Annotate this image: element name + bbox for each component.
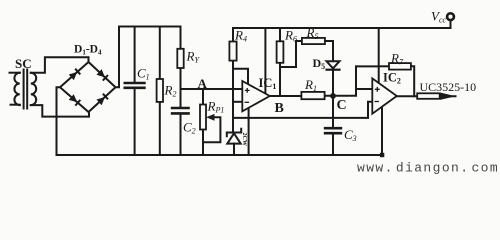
- diode bridge diamond D1-D4: [60, 62, 116, 112]
- resistor R7 box: [389, 63, 411, 70]
- svg-text:UC3525-10: UC3525-10: [420, 80, 477, 94]
- diode D5 cathode bar: [327, 69, 340, 71]
- wire bridge left corner to bottom rail: [57, 87, 61, 155]
- rail end junction blob: [380, 153, 384, 157]
- wire IC2 lower power to rail: [381, 108, 383, 156]
- wire to IC2 noninverting input: [356, 88, 372, 90]
- unlabeled output resistor box: [417, 93, 440, 99]
- bridge diode D1 top-left: [69, 72, 78, 80]
- wire bus drop to IC1: [264, 28, 266, 93]
- wire Vcc drop to IC2: [378, 28, 380, 83]
- bridge diode D4 bottom-right: [97, 97, 106, 105]
- RP1 wiper arrow: [206, 114, 214, 121]
- transformer SC secondary winding: [31, 73, 36, 105]
- wire zener to bottom rail: [233, 144, 235, 155]
- wire D5 to node C: [332, 70, 334, 93]
- zener diode bar: [227, 129, 241, 137]
- capacitor C2 branch: [180, 89, 182, 107]
- zener diode triangle: [227, 133, 240, 143]
- wire R4 bottom reference line down to zener: [232, 61, 234, 132]
- resistor R4 box: [229, 42, 236, 61]
- wire R1 to node C to staircase: [325, 66, 356, 95]
- wire bottom rail: [57, 154, 383, 156]
- resistor R2 branch: [159, 27, 161, 80]
- svg-text:D1-D4: D1-D4: [74, 44, 102, 57]
- wire RP1 wiper loop: [203, 117, 220, 142]
- potentiometer RP1 box: [200, 105, 206, 130]
- resistor R2 box: [157, 79, 163, 102]
- resistor R5 box: [302, 38, 325, 44]
- svg-text:C: C: [337, 98, 347, 113]
- capacitor C1 branch: [134, 27, 136, 83]
- wire staircase to Vcc drop: [356, 65, 379, 67]
- resistor R4 branch: [232, 28, 234, 42]
- node C junction dot: [330, 93, 336, 99]
- transformer core: [23, 70, 25, 109]
- bridge diode D3 bottom-left: [69, 94, 78, 102]
- wire IC1 lower power to rail: [248, 108, 250, 155]
- resistor R7 leads: [379, 65, 389, 67]
- wire bridge right corner to top-left bus: [116, 27, 120, 88]
- svg-text:A: A: [198, 76, 208, 91]
- diode D5 triangle: [327, 61, 340, 68]
- op-amp IC2: [372, 78, 397, 113]
- svg-text:2CW: 2CW: [241, 133, 247, 146]
- transformer SC primary winding: [10, 72, 20, 74]
- wire IC2 output: [397, 95, 417, 97]
- svg-text:SC: SC: [15, 56, 32, 71]
- capacitor C1 plates: [124, 83, 146, 88]
- svg-text:B: B: [275, 101, 284, 116]
- bridge diode D2 top-right: [97, 69, 105, 77]
- wire reference line to IC2 inverting input: [233, 102, 372, 118]
- wire IC1 output to R1: [270, 95, 302, 97]
- capacitor C3 branch: [332, 134, 334, 155]
- wire secondary top to bridge top corner: [31, 57, 89, 72]
- wire top-left bus: [119, 26, 181, 28]
- resistor R1 box: [301, 92, 324, 99]
- resistor R6 box: [277, 41, 284, 63]
- capacitor C3 plates: [324, 128, 342, 133]
- wire node A line: [181, 88, 243, 90]
- resistor RY branch: [180, 27, 182, 49]
- wire secondary bottom to bridge bottom corner: [31, 105, 89, 117]
- wire output arrow line: [440, 95, 456, 97]
- output arrow head: [440, 93, 456, 100]
- Vcc terminal: [447, 13, 454, 20]
- op-amp IC1: [242, 81, 269, 111]
- wire IC1 inverting input: [233, 101, 242, 103]
- resistor RY box: [177, 49, 183, 68]
- resistor R6 branch: [279, 28, 281, 41]
- potentiometer RP1 branch: [202, 89, 204, 105]
- wire R5 left loop from R6 line: [280, 41, 302, 67]
- wire node C down to C3: [332, 96, 334, 127]
- wire R5 right lead down to D5: [325, 41, 333, 61]
- svg-text:www.diangon.com: www.diangon.com: [357, 161, 499, 176]
- wire IC1 power jog: [233, 69, 248, 84]
- wire main Vcc bus: [233, 21, 451, 28]
- capacitor C2 plates: [171, 108, 190, 113]
